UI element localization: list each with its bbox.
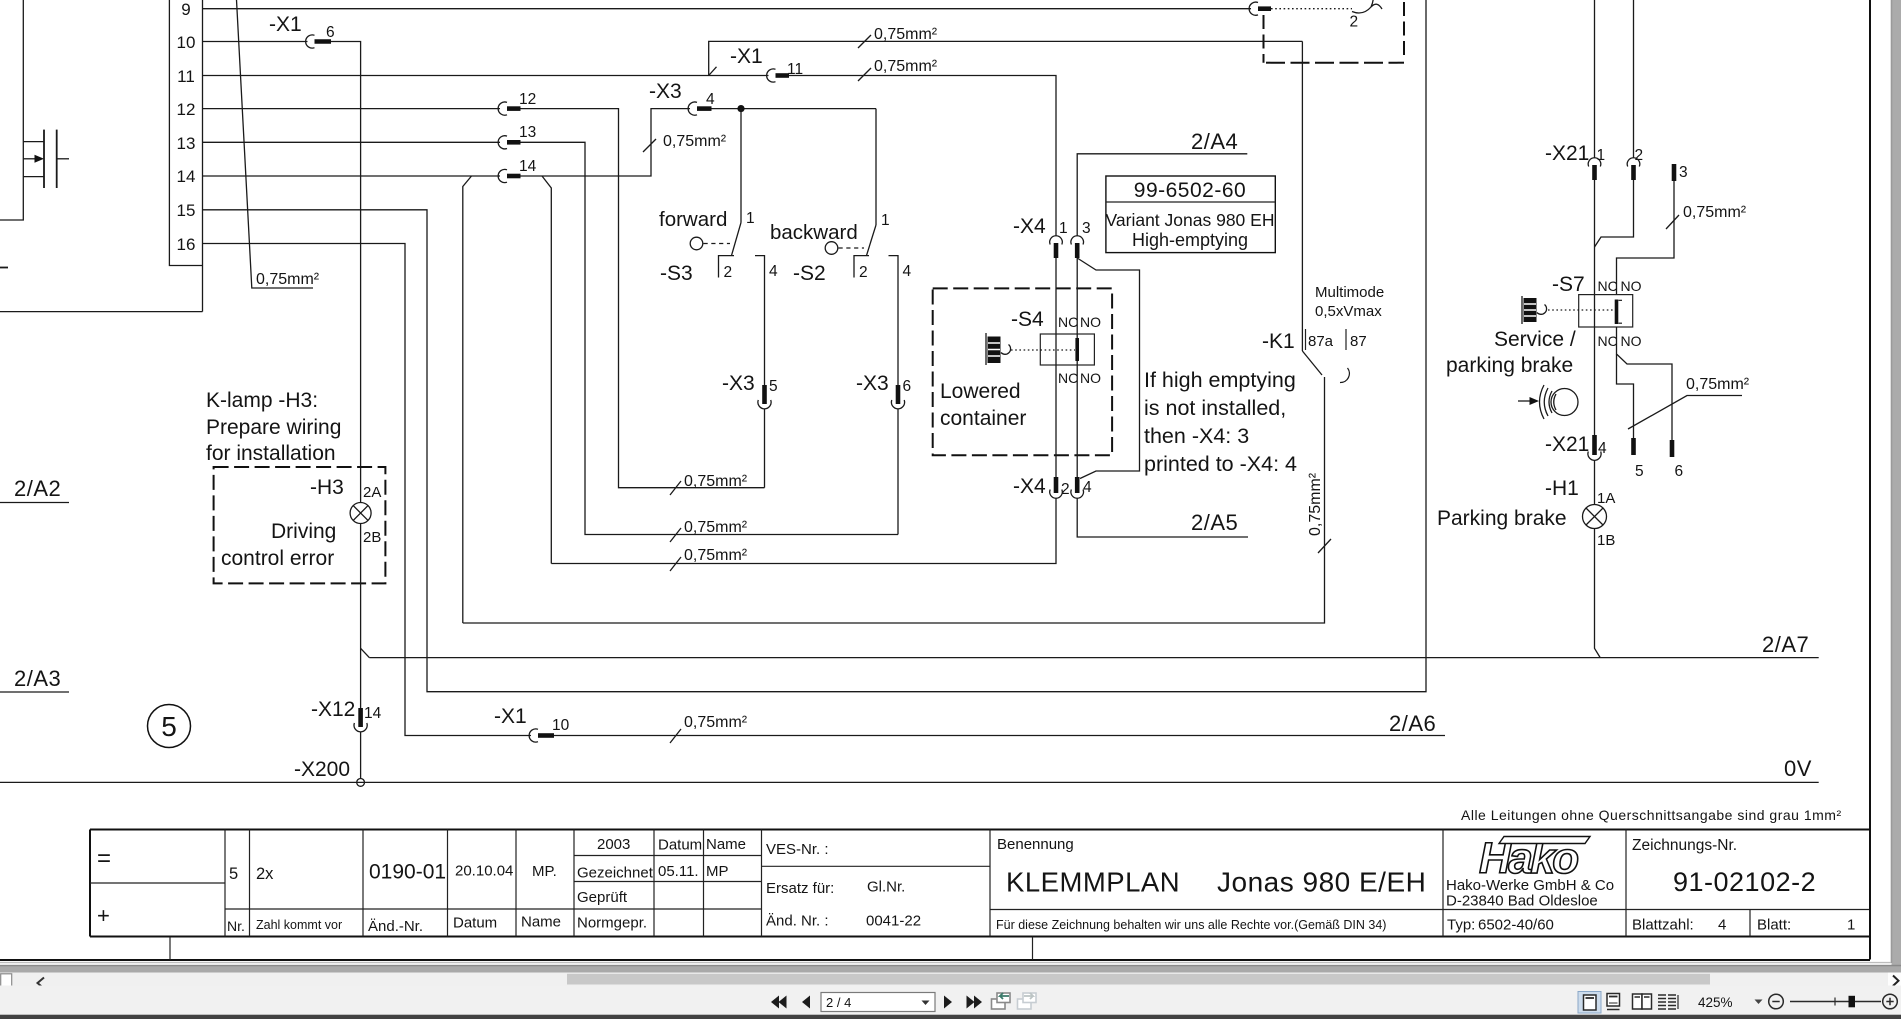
svg-text:5: 5 [1635,463,1644,480]
wire -H3 to -X12:14 [360,524,362,711]
wire branch to 2/A7 line [361,648,370,657]
wire terminal 9 to top-right [203,8,1252,10]
svg-text:Normgepr.: Normgepr. [577,915,647,932]
svg-text:0V: 0V [1784,756,1812,781]
svg-text:0,75mm²: 0,75mm² [1686,376,1750,393]
svg-text:Datum: Datum [453,915,497,932]
relay contact -K1 (87a/87) [1262,41,1367,382]
layout icon 4 [1658,995,1678,1009]
svg-text:6502-40/60: 6502-40/60 [1478,917,1554,934]
svg-text:backward: backward [770,221,858,244]
svg-text:Gl.Nr.: Gl.Nr. [867,879,905,896]
title block outer border [90,830,1870,937]
svg-text:-H1: -H1 [1545,477,1579,500]
value label 0,75mm2 (S3 loop) [670,473,748,495]
value label 0,75mm2 (K1 feed) [858,26,938,48]
svg-text:87: 87 [1350,333,1367,350]
svg-text:+: + [97,903,110,928]
net 0V line [0,756,1819,782]
connector -X4 pin 3 [1071,220,1091,258]
svg-text:NO: NO [1080,370,1101,386]
wire 15 long route to right riser [203,0,1427,692]
svg-text:9: 9 [181,0,190,19]
wire stub at left edge [0,267,8,269]
svg-text:Zahl kommt vor: Zahl kommt vor [256,918,342,932]
svg-text:NO: NO [1080,314,1101,330]
svg-text:Benennung: Benennung [997,836,1074,853]
value label 0,75mm2 (X3:4 feed) [643,133,727,152]
value label 0,75mm2 (rotated, K1 drop) [1307,472,1331,553]
svg-text:control error: control error [221,547,334,570]
svg-text:VES-Nr. :: VES-Nr. : [766,841,829,858]
svg-text:1: 1 [1847,917,1855,934]
svg-text:4: 4 [1598,440,1607,457]
-S7 actuator [1522,296,1614,324]
page edge shadow right [1892,0,1901,965]
lamp -H1 (parking brake) [1437,460,1615,549]
wire 12 to -X1:12 [203,108,501,110]
svg-text:2: 2 [724,264,733,281]
annotation K-lamp [206,389,341,570]
-S4 actuator [986,333,1075,365]
svg-text:=: = [97,845,111,872]
layout icon 3 [1633,994,1652,1009]
wire -H1 to 2/A7 [1595,529,1601,658]
wire -X4:3 through -S4 NO to -X4:4 [1076,258,1078,338]
svg-text:Alle Leitungen ohne Querschnit: Alle Leitungen ohne Querschnittsangabe s… [1461,807,1842,823]
svg-text:2/A6: 2/A6 [1389,711,1436,736]
wire 14 to -X1:14 [203,175,501,177]
bottom dark strip [0,1015,1901,1019]
svg-text:High-emptying: High-emptying [1132,230,1248,250]
svg-text:2/A4: 2/A4 [1191,129,1238,154]
next view icon (disabled) [1018,993,1037,1009]
wire 13 to -X1:13 [203,141,501,143]
svg-text:2/A7: 2/A7 [1762,632,1809,657]
dotted actuator link (top right) [1271,8,1352,10]
svg-text:1: 1 [746,210,755,227]
dashed enclosure top right [1263,15,1265,63]
Hako logo [1479,834,1590,883]
svg-text:425%: 425% [1698,995,1733,1010]
net 2/A7 line [369,632,1818,658]
svg-text:0,75mm²: 0,75mm² [1683,204,1747,221]
svg-text:KLEMMPLAN: KLEMMPLAN [1006,867,1180,898]
annotation: if high emptying [1144,368,1297,476]
svg-text:15: 15 [177,201,196,220]
svg-text:Für diese Zeichnung behalten w: Für diese Zeichnung behalten wir uns all… [996,918,1386,932]
svg-text:Jonas 980 E/EH: Jonas 980 E/EH [1217,867,1426,898]
svg-text:NC: NC [1598,333,1618,349]
svg-text:12: 12 [519,91,536,108]
svg-text:91-02102-2: 91-02102-2 [1673,867,1816,897]
contact bar -S4 [1075,338,1079,361]
wire -X21:1 down to -S7 [1594,180,1596,295]
svg-text:1: 1 [1059,220,1068,237]
title block vertical dividers [225,830,1750,937]
svg-text:2: 2 [859,264,868,281]
svg-text:4: 4 [769,263,778,280]
wire -X21:3 to -S7 NO [1617,181,1675,295]
annotation multimode [1315,284,1384,320]
svg-text:-X4: -X4 [1013,475,1046,498]
variant info box 99-6502-60 [1106,176,1276,253]
svg-text:2/A5: 2/A5 [1191,510,1238,535]
switch -S4 [1011,308,1101,386]
transistor Q1 (MOSFET, partially visible at left) [0,0,69,220]
connector -X4 pin 1 [1013,215,1068,258]
svg-text:10: 10 [552,717,570,734]
window lower edge [0,965,1901,967]
wire -X1:11 to -X4:1 [789,76,1056,237]
svg-text:forward: forward [659,208,727,231]
svg-text:1B: 1B [1597,532,1615,549]
connector -X4 pin 4 [1071,477,1092,498]
page number box [821,993,935,1012]
svg-text:6: 6 [903,378,912,395]
connector -X1 pin 11 [730,45,803,82]
svg-text:Service /: Service / [1494,328,1576,351]
svg-text:NC: NC [1598,278,1618,294]
switch actuator curve (cut off at top) [1352,0,1382,13]
svg-text:Gezeichnet: Gezeichnet [577,865,654,882]
svg-text:Multimode: Multimode [1315,284,1384,301]
connector -X3 pin 6 [856,372,911,409]
svg-text:4: 4 [1083,479,1092,496]
wire -S7 NO to pin 5 [1617,354,1634,438]
wire -X3:5 down [764,409,766,488]
svg-text:0,75mm²: 0,75mm² [684,547,748,564]
svg-text:Blattzahl:: Blattzahl: [1632,917,1694,934]
value label 0,75mm2 (X21:3) [1666,204,1747,229]
svg-text:0,75mm²: 0,75mm² [684,473,748,490]
wire -X12:14 to 0V [360,732,362,778]
svg-text:-X1: -X1 [269,13,302,36]
svg-text:Geprüft: Geprüft [577,889,628,906]
svg-text:0,75mm²: 0,75mm² [684,714,748,731]
layout icon 2 [1607,994,1620,1010]
net 2/A2 [0,476,69,503]
wire down to -S3 pin 1 [740,109,742,223]
svg-text:Änd. Nr. :: Änd. Nr. : [766,913,829,930]
svg-text:-S7: -S7 [1552,273,1585,296]
svg-text:5: 5 [161,711,177,742]
svg-text:NC: NC [1058,314,1078,330]
wire 14 branch to -K1 return [463,176,472,623]
svg-text:6: 6 [326,24,335,41]
svg-text:-X12: -X12 [311,698,355,721]
svg-text:Datum: Datum [658,837,702,854]
jumper -X4:3 printed to -X4:4 (bypass) [1077,258,1139,479]
svg-text:3: 3 [1679,164,1688,181]
wire bend tick [709,67,717,76]
svg-text:-X21: -X21 [1545,142,1589,165]
svg-text:14: 14 [177,167,196,186]
svg-text:0,75mm²: 0,75mm² [1307,472,1324,536]
annotation: lowered container [940,380,1026,430]
annotation service/parking brake [1446,328,1576,377]
svg-text:14: 14 [519,158,537,175]
connector -X1 pin 6 [306,24,335,48]
svg-text:0,75mm²: 0,75mm² [874,26,938,43]
page edge bottom [0,962,1891,964]
svg-text:1A: 1A [1597,490,1615,507]
svg-text:14: 14 [364,705,382,722]
svg-text:If high emptying: If high emptying [1144,368,1296,392]
connector pin on wire 9 (in dashed box) [1249,2,1271,15]
svg-text:0,75mm²: 0,75mm² [663,133,727,150]
value label 0,75mm2 (2/A6 wire) [670,714,748,743]
connector -X21 pin 4 [1545,433,1607,460]
svg-text:then -X4: 3: then -X4: 3 [1144,424,1249,448]
svg-text:is not installed,: is not installed, [1144,396,1286,420]
wire -K1:87 down to y623 and back to wire14 branch [463,377,1325,623]
svg-text:-H3: -H3 [310,476,344,499]
svg-text:Typ:: Typ: [1447,917,1475,934]
net 2/A4 [1077,129,1247,236]
terminal -X200 (circle on 0V line) [294,758,365,786]
wire to 2/A6 [554,735,1445,737]
svg-text:-X200: -X200 [294,758,350,781]
wire -S7 NO to pin 6 [1617,327,1673,440]
connector -X1 pin 13 [498,124,536,149]
svg-text:2B: 2B [363,529,381,546]
pin -X21:3 [1674,164,1688,181]
switch -S2 (backward) [770,212,912,387]
connector -X1 pin 14 [498,158,536,183]
svg-text:Blatt:: Blatt: [1757,917,1791,934]
svg-text:-S2: -S2 [793,262,826,285]
svg-text:05.11.: 05.11. [658,863,699,880]
wire -X21:2 merge [1595,180,1634,247]
svg-text:6: 6 [1675,463,1684,480]
svg-text:Prepare wiring: Prepare wiring [206,416,341,439]
svg-text:-X1: -X1 [730,45,763,68]
svg-text:1: 1 [881,212,890,229]
wire 14 to -X3:4 [521,109,691,176]
svg-text:NC: NC [1058,370,1078,386]
wire 16 to -X1:10 row [203,244,532,736]
svg-text:-X21: -X21 [1545,433,1589,456]
svg-text:5: 5 [229,865,238,883]
svg-text:Name: Name [521,914,561,931]
svg-text:4: 4 [1718,917,1726,934]
connector -X3 pin 4 [649,80,715,115]
svg-text:Änd.-Nr.: Änd.-Nr. [368,918,423,935]
connector -X1 pin 12 [498,91,536,115]
svg-text:5: 5 [769,378,778,395]
svg-text:-X3: -X3 [856,372,889,395]
connector -X3 pin 5 [722,372,778,409]
svg-text:Parking brake: Parking brake [1437,507,1567,530]
net 2/A3 [0,666,69,692]
svg-text:parking brake: parking brake [1446,354,1573,377]
wire 13 route to -X3:6 column [521,142,899,534]
svg-text:Driving: Driving [271,520,336,543]
connector -X21 pin 1 [1545,0,1605,180]
svg-text:0041-22: 0041-22 [866,913,921,930]
svg-text:11: 11 [177,67,195,86]
previous view icon [992,993,1011,1009]
svg-text:-X3: -X3 [649,80,682,103]
svg-text:NO: NO [1621,278,1642,294]
value label 0,75mm2 (X4:2 loop) [670,547,748,571]
svg-text:2: 2 [1350,14,1359,31]
pin -X21:5 [1634,438,1644,480]
wire 12 route to -X3:5 column [521,109,765,488]
svg-text:Ersatz für:: Ersatz für: [766,880,834,897]
svg-text:4: 4 [903,263,912,280]
svg-text:0,75mm²: 0,75mm² [684,519,748,536]
connector -X21 pin 2 [1627,0,1643,180]
svg-text:12: 12 [177,100,196,119]
svg-text:2 / 4: 2 / 4 [826,995,851,1010]
wire 14 branch to -X4:2 return [542,176,551,564]
svg-text:-S4: -S4 [1011,308,1044,331]
nav buttons [771,996,982,1009]
svg-text:20.10.04: 20.10.04 [455,863,513,880]
sheet frame bottom edge [0,959,1870,961]
svg-text:K-lamp -H3:: K-lamp -H3: [206,389,318,412]
svg-text:for installation: for installation [206,442,336,465]
service brake indicator icon [1518,385,1578,419]
svg-text:0190-01: 0190-01 [369,861,446,884]
pin -X21:6 [1672,440,1683,480]
svg-text:-X4: -X4 [1013,215,1046,238]
wire riser to 0,75mm2 line toward -K1 [709,41,1303,75]
svg-text:87a: 87a [1308,333,1334,350]
svg-text:2x: 2x [256,865,274,883]
wire 11 to -X1:11 [203,75,769,77]
svg-text:-X1: -X1 [494,705,527,728]
value label 0,75mm2 (wire 11) [858,58,938,81]
value label 0,75mm2 (S2 loop) [670,519,748,542]
svg-text:Nr.: Nr. [227,918,245,934]
svg-text:0,75mm²: 0,75mm² [256,271,320,288]
svg-text:3: 3 [1082,220,1091,237]
svg-text:printed to -X4: 4: printed to -X4: 4 [1144,452,1297,476]
net 2/A5 [1077,498,1248,537]
wire -X4:2 down-left to wire 14 branch [551,498,1056,564]
lamp -H3 (driving control error) [214,467,386,583]
wire terminal 10 to -X1:6 [203,41,308,43]
svg-text:-K1: -K1 [1262,330,1295,353]
switch -S7 [1552,273,1642,349]
connector -X4 pin 2 [1013,475,1070,498]
svg-text:99-6502-60: 99-6502-60 [1134,179,1246,202]
switch -S3 (forward) [659,208,778,387]
wire -X3:4 to switches [712,108,877,110]
svg-text:2003: 2003 [597,836,630,853]
svg-text:container: container [940,407,1026,430]
dashed enclosure: lowered container [933,288,1112,455]
svg-text:0,5xVmax: 0,5xVmax [1315,303,1382,320]
sheet frame right edge [1869,0,1871,960]
svg-text:4: 4 [706,91,715,108]
svg-text:Lowered: Lowered [940,380,1021,403]
svg-text:13: 13 [177,134,196,153]
svg-text:2/A3: 2/A3 [14,666,61,691]
connector -X12 pin 14 [311,698,382,732]
label 0,75mm2 (top diagonal wire) [237,0,320,288]
value label 0,75mm2 (leader, S7 outputs) [1628,376,1750,429]
wire -S7 NC down to -X21:4 [1594,327,1596,437]
svg-text:Zeichnungs-Nr.: Zeichnungs-Nr. [1632,837,1737,854]
wire down to -S2 pin 1 [875,109,877,225]
junction node [737,105,744,112]
svg-text:13: 13 [519,124,536,141]
connector -X1 pin 10 [494,705,570,742]
terminal strip A1 (terminals 9-16) [0,0,203,312]
title block horizontal dividers [90,882,225,884]
svg-text:2A: 2A [363,484,381,501]
svg-text:10: 10 [177,33,196,52]
svg-text:-X3: -X3 [722,372,755,395]
svg-text:2/A2: 2/A2 [14,476,61,501]
wire -X3:6 down [897,409,899,535]
svg-text:Name: Name [706,836,746,853]
wire -X1:6 down to lamp -H3 [331,42,361,503]
svg-text:0,75mm²: 0,75mm² [874,58,938,75]
svg-text:-S3: -S3 [660,262,693,285]
horizontal scrollbar [0,973,1901,986]
svg-text:MP: MP [706,863,729,880]
svg-text:Hako-Werke GmbH & Co: Hako-Werke GmbH & Co [1446,877,1614,894]
fold marks [169,937,171,960]
layout icon 1 (selected) [1578,992,1601,1014]
svg-text:16: 16 [177,235,196,254]
wire -X4:1 through -S4 NC to -X4:2 [1055,258,1057,478]
svg-text:Variant Jonas 980 EH: Variant Jonas 980 EH [1106,210,1275,230]
svg-text:NO: NO [1621,333,1642,349]
toolbar [0,986,1901,1015]
svg-text:MP.: MP. [532,863,557,880]
svg-text:D-23840 Bad Oldesloe: D-23840 Bad Oldesloe [1446,893,1598,910]
sheet number circle 5 [148,705,191,748]
